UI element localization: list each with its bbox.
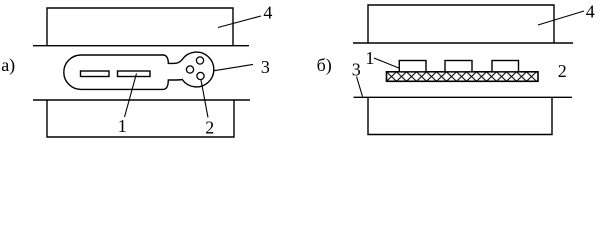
svg-text:2: 2: [558, 61, 567, 81]
bottom electrode line (left figure): [33, 99, 250, 101]
svg-text:б): б): [317, 55, 332, 76]
svg-text:а): а): [1, 55, 15, 76]
svg-text:1: 1: [118, 116, 127, 136]
bottom electrode line (right figure): [354, 96, 573, 98]
small hole left: [186, 66, 193, 73]
dielectric hatched bar 2 (right figure): [387, 72, 539, 82]
svg-text:3: 3: [352, 59, 361, 79]
leader line to label 4 (right): [538, 11, 584, 25]
leader line to label 3 (left): [214, 64, 253, 70]
electrode strip B (right): [445, 61, 472, 72]
svg-text:4: 4: [586, 1, 595, 21]
leader line to label 1 (right): [374, 58, 400, 69]
leader line from label 3 (right): [357, 77, 363, 97]
electrode strip C (right): [492, 61, 519, 72]
electrode strip A (right): [399, 61, 426, 72]
small hole bottom: [197, 72, 204, 79]
top electrode block 4 (left figure): [47, 8, 233, 46]
svg-text:1: 1: [365, 48, 374, 68]
svg-text:4: 4: [263, 2, 272, 22]
inner electrode strip 1a: [81, 71, 110, 77]
top electrode line (left figure): [33, 45, 249, 47]
bottom electrode block (right figure): [368, 97, 552, 134]
svg-text:2: 2: [205, 118, 214, 138]
svg-text:3: 3: [261, 57, 270, 77]
top electrode block 4 (right figure): [368, 5, 554, 43]
leader line to label 2 (left): [201, 80, 208, 118]
leader line to label 4 (left): [218, 16, 261, 28]
leader line to label 1 (left): [125, 74, 137, 118]
bottom electrode block (left figure): [47, 100, 234, 137]
inner electrode strip 1b: [118, 71, 151, 77]
top electrode line (right figure): [353, 42, 573, 44]
discharge chamber outline (stadium + neck + circle): [64, 52, 214, 89]
small hole top: [196, 57, 203, 64]
